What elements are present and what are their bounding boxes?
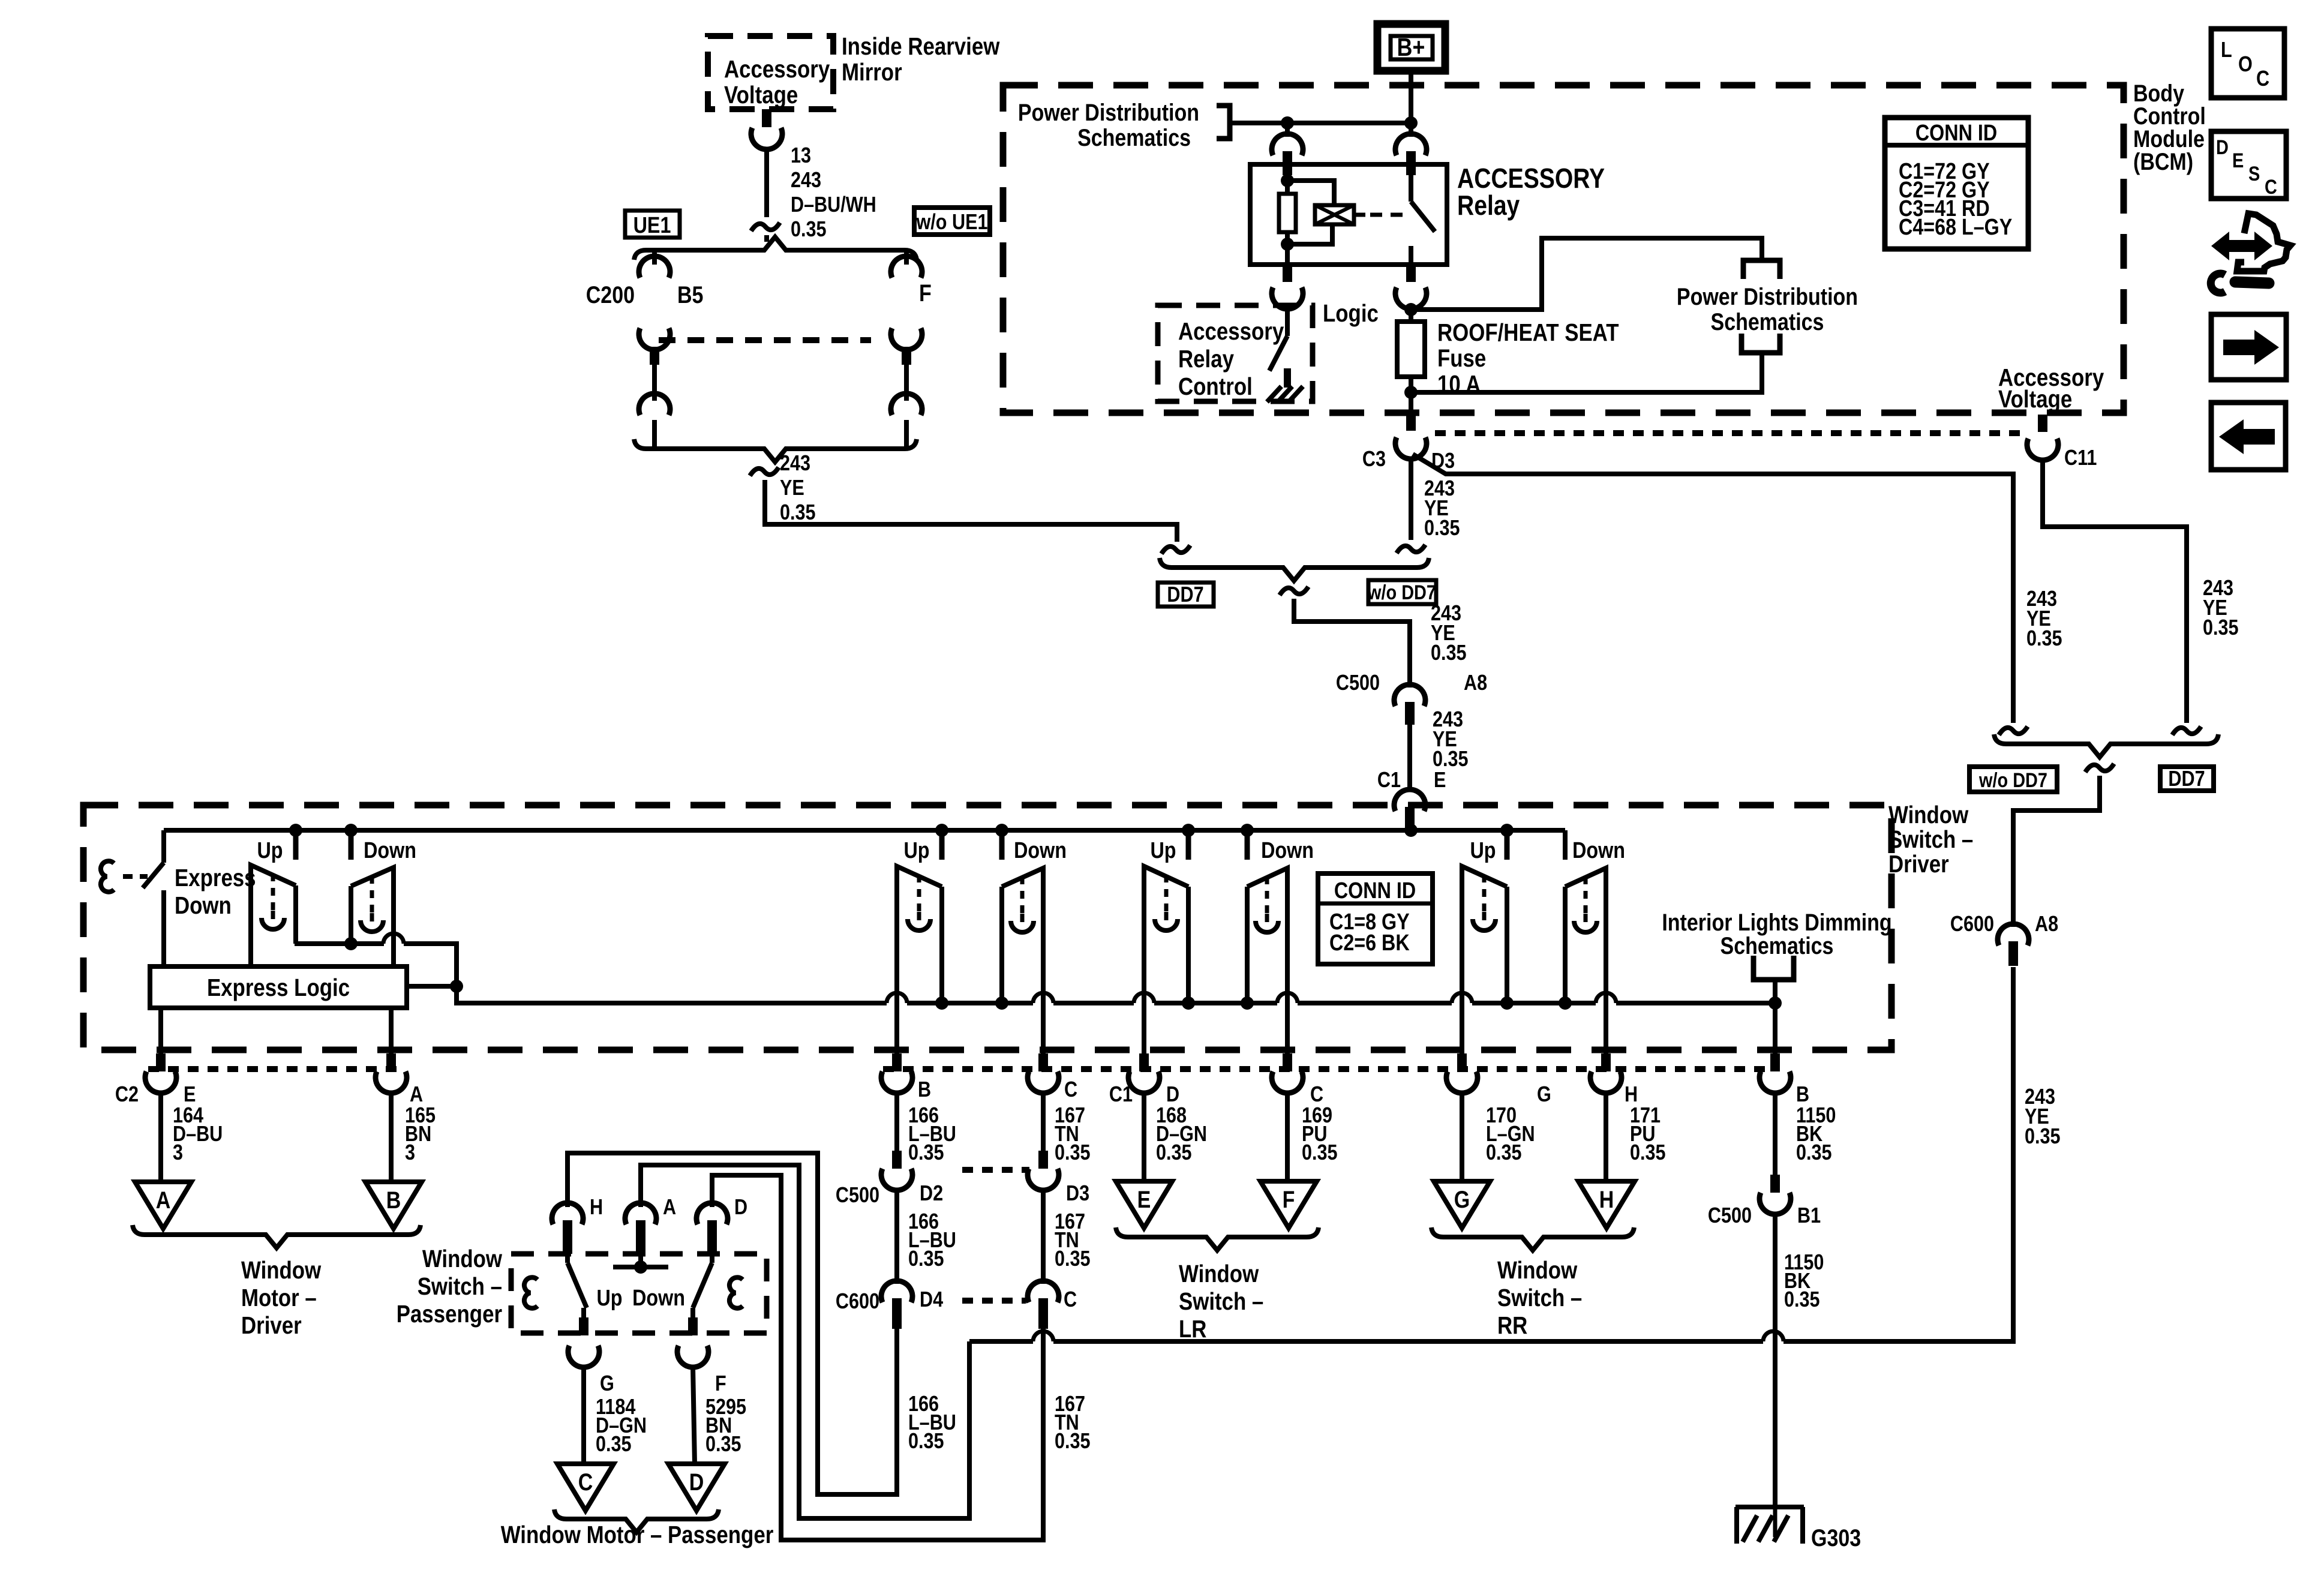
svg-text:0.35: 0.35 bbox=[1055, 1247, 1091, 1271]
RR window down switch bbox=[1565, 868, 1606, 1008]
svg-text:H: H bbox=[1599, 1185, 1614, 1212]
svg-text:Power Distribution: Power Distribution bbox=[1018, 98, 1199, 125]
connector C200 pin B5 lower half bbox=[639, 328, 670, 446]
svg-text:A: A bbox=[663, 1196, 676, 1220]
label: Interior Lights Dimming Schematics bbox=[1662, 908, 1891, 959]
svg-text:CONN ID: CONN ID bbox=[1915, 121, 1997, 146]
label E (C1) bbox=[1434, 769, 1446, 792]
icon double arrow bbox=[2211, 232, 2272, 260]
svg-text:D–BU/WH: D–BU/WH bbox=[791, 193, 876, 217]
pin B (C1 driver) bbox=[881, 1008, 912, 1093]
connector line C2 (dotted) bbox=[148, 1066, 401, 1072]
passenger down blade bbox=[693, 1263, 712, 1308]
svg-text:D: D bbox=[734, 1196, 747, 1220]
svg-text:Relay: Relay bbox=[1457, 190, 1520, 221]
driver down switch stub bbox=[349, 830, 354, 860]
svg-text:YE: YE bbox=[780, 476, 804, 500]
motor terminal E (LR) bbox=[1116, 1181, 1172, 1228]
connector C200 mate line bbox=[659, 337, 871, 343]
driver switch common link bbox=[295, 933, 457, 986]
junction LR up common bbox=[1182, 996, 1195, 1010]
wire label: 166 L-BU 0.35 (lower) bbox=[908, 1392, 956, 1454]
label Down (RR) bbox=[1572, 838, 1625, 863]
merge brace below C200 bbox=[634, 439, 917, 462]
label A pin bbox=[410, 1083, 423, 1107]
wire label: 167 TN 0.35 (mid) bbox=[1055, 1210, 1091, 1271]
svg-text:O: O bbox=[2238, 53, 2253, 77]
motor terminal G (RR) bbox=[1434, 1181, 1490, 1228]
relay coil (boxed X) bbox=[1315, 205, 1354, 224]
wire: BCM main 243 YE drop bbox=[1409, 458, 1413, 540]
label C pin LR bbox=[1310, 1083, 1323, 1107]
module box: Window Switch - Passenger (dashed) bbox=[511, 1254, 767, 1333]
svg-text:243: 243 bbox=[791, 169, 821, 193]
wire: passenger switch A loop to accessory feed bbox=[641, 1165, 969, 1518]
connector C500 pin D3 bbox=[1028, 1151, 1059, 1190]
relay coil to switch dashed link bbox=[1354, 213, 1404, 217]
wire label: 243 YE 0.35 (to C500) bbox=[1431, 602, 1467, 665]
svg-text:B1: B1 bbox=[1797, 1204, 1821, 1228]
svg-text:S: S bbox=[2248, 162, 2260, 185]
label C1 row bbox=[1109, 1083, 1133, 1107]
connector line C11 (dotted) bbox=[1435, 430, 2028, 436]
relay junction top bbox=[1281, 174, 1294, 187]
wire: bracket to common bus bbox=[1773, 980, 1777, 1003]
label A (passenger) bbox=[663, 1196, 676, 1220]
svg-text:0.35: 0.35 bbox=[1302, 1141, 1338, 1165]
wire label: 166 L-BU 0.35 (upper) bbox=[908, 1104, 956, 1165]
svg-text:D3: D3 bbox=[1066, 1182, 1089, 1206]
label Down (LR) bbox=[1261, 838, 1314, 863]
wire: B+ bus inside BCM bbox=[1230, 121, 1411, 125]
svg-text:D2: D2 bbox=[920, 1182, 943, 1206]
label C3 bbox=[1362, 448, 1386, 472]
svg-text:Down: Down bbox=[1261, 838, 1314, 863]
relay switch contacts and blade bbox=[1411, 164, 1435, 265]
module box: Body Control Module BCM (dashed) bbox=[1003, 85, 2124, 413]
brace window motor passenger bbox=[554, 1509, 719, 1532]
label C500 (D2) bbox=[836, 1184, 879, 1208]
bus junction LR down bbox=[1241, 824, 1254, 837]
splice break below C200 brace bbox=[750, 467, 779, 476]
label Up (passenger) bbox=[903, 838, 929, 863]
pin C (C1 driver) bbox=[1028, 1008, 1059, 1093]
svg-text:Passenger: Passenger bbox=[397, 1301, 502, 1328]
svg-text:A: A bbox=[410, 1083, 423, 1107]
svg-text:B: B bbox=[1796, 1083, 1809, 1107]
label B pin interior bbox=[1796, 1083, 1809, 1107]
icon arrow left bbox=[2211, 403, 2286, 470]
svg-text:Relay: Relay bbox=[1178, 346, 1234, 373]
svg-text:C4=68 L–GY: C4=68 L–GY bbox=[1899, 215, 2012, 240]
label: ACCESSORY Relay bbox=[1457, 163, 1605, 221]
wire: express logic right port bbox=[407, 984, 457, 989]
junction on B+ bus (relay coil) bbox=[1281, 116, 1294, 130]
wire label: 13 243 D-BU/WH 0.35 bbox=[791, 144, 876, 242]
svg-text:E: E bbox=[1434, 769, 1446, 792]
svg-text:Up: Up bbox=[257, 838, 283, 863]
svg-text:0.35: 0.35 bbox=[2025, 1125, 2061, 1149]
passenger rocker pivot bar bbox=[613, 1260, 668, 1274]
option merge brace above C200 bbox=[634, 237, 917, 260]
power feed B+ bbox=[1377, 24, 1445, 71]
relay coil wiring bbox=[1287, 181, 1334, 244]
svg-text:Up: Up bbox=[1470, 838, 1496, 863]
wire: common bus to switches (lower) bbox=[457, 986, 1775, 1003]
label: Inside Rearview Mirror bbox=[842, 33, 1000, 86]
connector C500 pin A8 bbox=[1394, 685, 1425, 725]
wire: fuse top to Power Distribution bracket bbox=[1411, 238, 1762, 310]
svg-text:Down: Down bbox=[364, 838, 416, 863]
label: Window Switch - Driver bbox=[1888, 801, 1973, 878]
connector C600 pin D4 bbox=[881, 1281, 912, 1329]
label C200 bbox=[586, 281, 635, 308]
label D2 bbox=[920, 1182, 943, 1206]
label D (passenger) bbox=[734, 1196, 747, 1220]
wire: pin C to terminal F bbox=[1285, 1092, 1290, 1181]
connector C3 pin D3 bbox=[1395, 415, 1427, 459]
wire: C600 C loop to passenger switch D bbox=[712, 1175, 1043, 1540]
label D pin bbox=[1166, 1083, 1179, 1107]
off-page bracket Power Distribution (upper) bbox=[1743, 260, 1780, 279]
junction express logic output bbox=[450, 980, 463, 993]
wire: F to motor D bbox=[693, 1367, 695, 1464]
conn id table (BCM) bbox=[1885, 118, 2028, 249]
label G303 bbox=[1811, 1524, 1861, 1551]
wire label: 170 L-GN 0.35 bbox=[1486, 1104, 1535, 1165]
connector into relay switch bbox=[1395, 123, 1427, 175]
svg-text:Switch –: Switch – bbox=[1888, 826, 1973, 853]
svg-text:ROOF/HEAT SEAT: ROOF/HEAT SEAT bbox=[1437, 319, 1619, 346]
option box DD7 (right) bbox=[2160, 767, 2214, 791]
RR up stub bbox=[1505, 830, 1510, 860]
svg-text:G: G bbox=[600, 1372, 614, 1396]
junction passenger up common bbox=[935, 996, 948, 1010]
label Up (driver) bbox=[257, 838, 283, 863]
svg-text:B: B bbox=[918, 1078, 931, 1102]
label B5 bbox=[677, 281, 703, 308]
motor terminal H (RR) bbox=[1578, 1181, 1635, 1228]
wire: pin B to C500 D2 bbox=[894, 1092, 899, 1151]
svg-text:0.35: 0.35 bbox=[1055, 1430, 1091, 1454]
svg-text:E: E bbox=[184, 1083, 196, 1107]
svg-text:Control: Control bbox=[1178, 373, 1253, 400]
option box DD7 bbox=[1158, 583, 1214, 607]
pin B interior lights bbox=[1759, 1053, 1791, 1093]
bus junction C1 E feed bbox=[1404, 824, 1418, 837]
label C600 (D4) bbox=[836, 1290, 879, 1314]
wire label: 169 PU 0.35 bbox=[1302, 1104, 1338, 1165]
label: Window Motor - Passenger bbox=[501, 1521, 774, 1548]
feed bus inside driver switch bbox=[164, 828, 1565, 833]
relay junction bottom bbox=[1281, 238, 1294, 251]
express down switch bbox=[143, 830, 164, 966]
motor terminal D (passenger) bbox=[668, 1464, 725, 1511]
svg-text:0.35: 0.35 bbox=[1055, 1141, 1091, 1165]
label A8 bbox=[1464, 671, 1487, 695]
wire stub to option brace bbox=[764, 235, 769, 242]
svg-text:C: C bbox=[578, 1468, 593, 1495]
motor terminal A (driver) bbox=[135, 1182, 191, 1229]
svg-text:A8: A8 bbox=[2035, 912, 2058, 936]
driver window up switch bbox=[251, 865, 296, 966]
logic block: Express Logic bbox=[150, 966, 407, 1008]
label Down (passenger) bbox=[1014, 838, 1067, 863]
junction passenger down common bbox=[995, 996, 1008, 1010]
svg-text:ACCESSORY: ACCESSORY bbox=[1457, 163, 1605, 194]
wire label: 164 D-BU 3 bbox=[173, 1104, 223, 1165]
wire label: 243 YE 0.35 (to C1) bbox=[1433, 708, 1469, 772]
svg-text:Express: Express bbox=[175, 864, 256, 891]
svg-text:Down: Down bbox=[175, 892, 232, 919]
label C pin bbox=[1064, 1078, 1077, 1102]
pin C2 row (LR down) bbox=[1272, 1008, 1303, 1093]
passenger up stub bbox=[939, 830, 945, 860]
pin D (passenger) bbox=[696, 1203, 728, 1263]
wire break right D3 branch bbox=[1999, 727, 2028, 735]
wire: DD7 merge to C500 A8 bbox=[1294, 599, 1410, 688]
wire: D3 to C600 C bbox=[1041, 1190, 1046, 1284]
conn id table (driver switch) bbox=[1318, 873, 1433, 964]
icon wrench bbox=[2211, 274, 2269, 293]
svg-text:243: 243 bbox=[780, 452, 810, 476]
wire label: 243 YE 0.35 (below C3) bbox=[1424, 477, 1460, 541]
svg-text:C: C bbox=[2265, 175, 2277, 199]
passenger box edge break right bbox=[729, 1277, 743, 1308]
svg-text:G303: G303 bbox=[1811, 1524, 1861, 1551]
svg-text:Express Logic: Express Logic bbox=[207, 974, 350, 1001]
svg-text:Window: Window bbox=[1497, 1257, 1578, 1284]
svg-text:A: A bbox=[156, 1186, 171, 1213]
svg-text:C3: C3 bbox=[1362, 448, 1386, 472]
svg-text:0.35: 0.35 bbox=[791, 218, 827, 242]
fuse F1: ROOF/HEAT SEAT 10A bbox=[1397, 322, 1425, 415]
svg-text:F: F bbox=[919, 279, 932, 306]
pin G (RR up) bbox=[1446, 1008, 1478, 1093]
wire label: 243 YE 0.35 (left feed) bbox=[780, 452, 816, 525]
svg-text:C600: C600 bbox=[836, 1290, 879, 1314]
svg-text:RR: RR bbox=[1497, 1312, 1527, 1339]
bus junction driver down bbox=[344, 824, 358, 837]
splice break between UE1 / w-o UE1 bbox=[751, 223, 780, 231]
wire break at DD7 splice left bbox=[1161, 545, 1190, 554]
label: Window Switch - Passenger bbox=[397, 1245, 503, 1328]
connector C500 mate line (dotted) bbox=[962, 1167, 1029, 1173]
svg-text:Switch –: Switch – bbox=[1179, 1288, 1263, 1315]
wire: brace to C200 pin F bbox=[904, 250, 909, 265]
connector C500 pin D2 bbox=[881, 1151, 912, 1190]
option box w/o DD7 bbox=[1367, 580, 1436, 604]
svg-text:0.35: 0.35 bbox=[1431, 641, 1467, 665]
svg-text:C: C bbox=[1064, 1288, 1077, 1312]
wire: pin B interior lights drop bbox=[1773, 1003, 1777, 1053]
label: Express Down bbox=[175, 864, 256, 919]
svg-text:DD7: DD7 bbox=[1167, 583, 1203, 607]
connector below relay coil side bbox=[1272, 265, 1303, 309]
svg-text:C500: C500 bbox=[836, 1184, 879, 1208]
svg-text:H: H bbox=[1625, 1083, 1638, 1107]
svg-text:H: H bbox=[590, 1196, 603, 1220]
wire label: 243 YE 0.35 (right C11) bbox=[2203, 577, 2239, 640]
motor terminal F (LR) bbox=[1260, 1181, 1317, 1228]
label: ROOF/HEAT SEAT Fuse 10 A bbox=[1437, 319, 1619, 398]
driver window down switch bbox=[351, 867, 394, 966]
connector into relay coil bbox=[1272, 123, 1303, 175]
svg-text:Fuse: Fuse bbox=[1437, 345, 1486, 372]
option merge brace DD7 right bbox=[1994, 734, 2218, 757]
svg-text:D: D bbox=[2216, 136, 2229, 159]
option box UE1 bbox=[625, 211, 680, 238]
svg-text:Down: Down bbox=[1014, 838, 1067, 863]
svg-text:Window: Window bbox=[422, 1245, 503, 1272]
wire: B1 to ground bbox=[1773, 1214, 1777, 1507]
wire: pin D to terminal E bbox=[1142, 1092, 1146, 1181]
wire: relay control into logic switch bbox=[1285, 308, 1290, 336]
wire label: 166 L-BU 0.35 (mid) bbox=[908, 1210, 956, 1271]
svg-text:0.35: 0.35 bbox=[780, 501, 816, 525]
LR up stub bbox=[1186, 830, 1191, 860]
passenger up blade bbox=[568, 1263, 587, 1308]
motor terminal C (passenger) bbox=[557, 1464, 614, 1511]
option box w/o UE1 bbox=[914, 208, 990, 235]
label: Accessory Voltage (BCM output) bbox=[1998, 364, 2104, 413]
label C600 (A8) bbox=[1950, 912, 1994, 936]
wire: pin H to terminal H bbox=[1604, 1092, 1608, 1181]
wire: left feed to DD7 splice bbox=[765, 480, 1177, 542]
brace window switch RR bbox=[1431, 1227, 1634, 1250]
bus junction LR up bbox=[1182, 824, 1195, 837]
junction below fuse bbox=[1404, 386, 1418, 399]
label B1 bbox=[1797, 1204, 1821, 1228]
junction RR down common bbox=[1559, 996, 1572, 1010]
wire label: 171 PU 0.35 bbox=[1630, 1104, 1666, 1165]
svg-text:0.35: 0.35 bbox=[1424, 517, 1460, 541]
option merge brace DD7 / w-o DD7 bbox=[1160, 558, 1429, 581]
component box: Accessory Relay Control (dashed) bbox=[1158, 305, 1313, 401]
connector C11 stub bbox=[2027, 415, 2058, 460]
wire break above DD7 brace bbox=[1397, 545, 1425, 553]
svg-text:Motor –: Motor – bbox=[241, 1284, 317, 1311]
label A8 (right) bbox=[2035, 912, 2058, 936]
label H pin bbox=[1625, 1083, 1638, 1107]
label: Accessory Relay Control bbox=[1178, 318, 1284, 400]
icon DESC bbox=[2211, 131, 2286, 199]
svg-text:0.35: 0.35 bbox=[2203, 616, 2239, 640]
label: Power Distribution Schematics (right) bbox=[1677, 283, 1858, 335]
RR window up switch bbox=[1462, 866, 1507, 1008]
svg-text:Mirror: Mirror bbox=[842, 59, 902, 86]
LR window up switch bbox=[1144, 866, 1188, 1008]
label F bbox=[919, 279, 932, 306]
express down switch link bbox=[123, 874, 148, 879]
svg-text:C: C bbox=[2256, 67, 2269, 91]
label: Window Switch - LR bbox=[1179, 1260, 1263, 1343]
svg-text:UE1: UE1 bbox=[633, 213, 671, 238]
svg-text:Down: Down bbox=[1572, 838, 1625, 863]
svg-text:0.35: 0.35 bbox=[908, 1141, 944, 1165]
svg-text:D: D bbox=[689, 1468, 704, 1495]
wire: relay output to fuse junction bbox=[1409, 308, 1413, 322]
svg-text:B+: B+ bbox=[1397, 34, 1425, 61]
component box: Inside Rearview Mirror (Accessory Voltage feed) bbox=[708, 36, 833, 109]
pin E (C2) bbox=[145, 1008, 176, 1093]
connector line C1 (dotted) bbox=[883, 1066, 1773, 1072]
svg-text:E: E bbox=[1137, 1185, 1151, 1212]
wire: pin G to terminal G bbox=[1460, 1092, 1464, 1181]
label Up (LR) bbox=[1150, 838, 1176, 863]
label Up Down (passenger) bbox=[596, 1286, 684, 1311]
connector C600 pin A8 bbox=[1998, 924, 2029, 966]
bus junction passenger up bbox=[935, 824, 948, 837]
connector pin under mirror box bbox=[751, 109, 782, 149]
label: Body Control Module (BCM) bbox=[2133, 79, 2206, 175]
svg-text:Voltage: Voltage bbox=[724, 82, 798, 109]
junction above fuse bbox=[1404, 303, 1418, 316]
svg-text:0.35: 0.35 bbox=[2026, 627, 2062, 651]
wire: C11 accessory voltage to right side bbox=[2043, 458, 2187, 723]
junction interior lights bbox=[1768, 996, 1782, 1010]
svg-text:A8: A8 bbox=[1464, 671, 1487, 695]
wire label: 1184 D-GN 0.35 bbox=[596, 1395, 647, 1457]
svg-text:Switch –: Switch – bbox=[418, 1273, 502, 1300]
pin A (passenger) bbox=[625, 1203, 656, 1267]
svg-text:Window: Window bbox=[1888, 801, 1969, 828]
label Down (driver) bbox=[364, 838, 416, 863]
label C2 bbox=[115, 1083, 139, 1107]
wire label: 5295 BN 0.35 bbox=[705, 1395, 746, 1457]
svg-text:C600: C600 bbox=[1950, 912, 1994, 936]
svg-text:C500: C500 bbox=[1708, 1204, 1752, 1228]
svg-text:w/o DD7: w/o DD7 bbox=[1978, 769, 2047, 792]
option box w/o DD7 (right) bbox=[1969, 767, 2057, 792]
label Up (RR) bbox=[1470, 838, 1496, 863]
svg-text:C2=6 BK: C2=6 BK bbox=[1329, 930, 1410, 956]
label G (passenger) bbox=[600, 1372, 614, 1396]
ground G303 bbox=[1736, 1507, 1804, 1544]
icon arrow right bbox=[2211, 314, 2286, 380]
svg-text:F: F bbox=[1283, 1185, 1295, 1212]
label F (passenger) bbox=[715, 1372, 726, 1396]
svg-text:Schematics: Schematics bbox=[1721, 932, 1834, 959]
wire: accessory feed crossover bbox=[969, 967, 2013, 1341]
wire label: 1150 BK 0.35 (lower) bbox=[1784, 1251, 1824, 1312]
label B pin bbox=[918, 1078, 931, 1102]
svg-text:3: 3 bbox=[173, 1141, 183, 1165]
relay U1: ACCESSORY Relay box bbox=[1250, 164, 1447, 265]
brace window motor driver bbox=[133, 1225, 421, 1248]
wire label: 243 YE 0.35 (A8 drop) bbox=[2025, 1085, 2061, 1149]
brace window switch LR bbox=[1116, 1227, 1319, 1250]
svg-text:Accessory: Accessory bbox=[1178, 318, 1284, 345]
passenger window up switch bbox=[897, 866, 942, 1008]
svg-text:G: G bbox=[1537, 1083, 1551, 1107]
module box: Window Switch - Driver (dashed) bbox=[83, 805, 1891, 1050]
label E pin bbox=[184, 1083, 196, 1107]
svg-text:Window: Window bbox=[241, 1257, 322, 1284]
pin H (RR down) bbox=[1590, 1008, 1622, 1093]
off-page bracket Power Distribution (lower) bbox=[1742, 334, 1780, 353]
label C500 (B1) bbox=[1708, 1204, 1752, 1228]
svg-text:Driver: Driver bbox=[1888, 851, 1949, 878]
wire label: 243 YE 0.35 (right D3) bbox=[2026, 587, 2062, 651]
svg-text:Power Distribution: Power Distribution bbox=[1677, 283, 1858, 310]
bus junction express bbox=[0, 0, 1, 1]
label D3 (C500) bbox=[1066, 1182, 1089, 1206]
svg-text:0.35: 0.35 bbox=[1486, 1141, 1522, 1165]
wire: pin C to C500 D3 bbox=[1041, 1092, 1046, 1151]
svg-text:C1: C1 bbox=[1377, 769, 1401, 792]
wire label: 165 BN 3 bbox=[405, 1104, 436, 1165]
